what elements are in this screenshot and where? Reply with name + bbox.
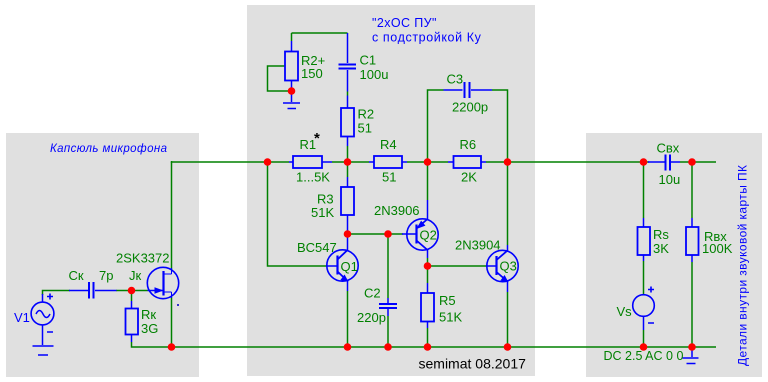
ground symbol at Rvx	[683, 347, 699, 364]
lead: C3 right	[471, 89, 492, 91]
lead: R6 left	[448, 161, 454, 163]
svg-text:3G: 3G	[141, 321, 158, 336]
lead: Ck right	[95, 290, 117, 292]
node: gate/Ck/Rk	[128, 287, 136, 295]
lead: Rk bottom	[131, 335, 133, 343]
resistor R6 2K	[454, 156, 482, 168]
svg-text:2K: 2K	[461, 170, 477, 185]
svg-text:"2хОС ПУ": "2хОС ПУ"	[372, 16, 437, 30]
lead: R5 bottom	[427, 322, 429, 329]
svg-text:Q3: Q3	[500, 259, 517, 274]
lead: Q1 base	[328, 265, 338, 267]
transistor Q3 2N3904	[487, 250, 518, 281]
resistor R2+ 150 (trimmer)	[285, 52, 298, 81]
wire: rail R1 to R4	[332, 161, 369, 163]
lead: C1 top	[347, 33, 349, 63]
lead: R2+ bottom	[291, 81, 293, 103]
svg-text:Rs: Rs	[653, 227, 669, 242]
wire: Rs to Vs	[643, 261, 645, 295]
wire: mid node to Q2 base	[348, 233, 404, 235]
lead: V1 top	[42, 294, 44, 304]
lead: Vs top	[643, 294, 645, 297]
node: R5 ground	[424, 343, 432, 351]
lead: R6 right	[481, 161, 486, 163]
wire: rail Cvx to end	[680, 161, 716, 163]
wire: gate node to JFET gate	[132, 290, 148, 292]
svg-text:2N3906: 2N3906	[374, 203, 420, 218]
panel: Капсюль микрофона	[6, 133, 199, 377]
resistor Rk 3G	[126, 309, 139, 335]
svg-text:2N3904: 2N3904	[455, 238, 501, 253]
wire: Rs top	[643, 162, 645, 218]
capacitor C2 220p plates	[379, 304, 397, 308]
node: rail/C3/Q3c	[504, 158, 512, 166]
svg-text:1...5K: 1...5K	[296, 170, 330, 185]
svg-text:R2: R2	[358, 107, 375, 122]
node: Q2c/Q3b/R5	[424, 262, 432, 270]
resistor R5 51K	[421, 293, 434, 322]
lead: R3 top	[347, 177, 349, 187]
wire: top supply R2+ to C1	[292, 33, 348, 41]
svg-text:Jк: Jк	[129, 268, 142, 283]
wire: Q1 emitter down	[347, 291, 349, 347]
lead: Ck left	[69, 290, 88, 292]
wire: Q3 emitter down	[507, 292, 509, 347]
ground symbol at R2+	[283, 103, 300, 109]
lead: R1 left	[289, 161, 293, 163]
lead: C1 bottom	[347, 70, 349, 92]
wire: rail node to R3	[347, 162, 349, 177]
wire: C3 loop left	[428, 90, 444, 162]
svg-text:*: *	[314, 130, 320, 147]
svg-text:C2: C2	[364, 286, 381, 301]
wire: V1 top to Ck	[43, 291, 71, 296]
wire: node to Q3 base	[428, 265, 488, 267]
wire: C1 to R2 joint	[347, 92, 349, 96]
svg-text:C1: C1	[360, 53, 377, 68]
svg-text:3K: 3K	[653, 241, 669, 256]
lead: Q3 base	[487, 265, 497, 267]
node: source/ground rail	[168, 343, 176, 351]
node: rail/Q1 base	[264, 158, 272, 166]
svg-text:R5: R5	[439, 293, 456, 308]
lead: Q1 collector	[347, 234, 349, 251]
lead: Cvx left	[648, 161, 665, 163]
lead: R2 top	[347, 96, 349, 109]
wire: rail R4 to R6	[407, 161, 448, 163]
wire: R2 bottom to rail node	[347, 146, 349, 162]
resistor R3 51K	[341, 187, 354, 215]
svg-text:51: 51	[358, 121, 372, 136]
node: rail/Rs	[640, 158, 648, 166]
node: Vs ground	[640, 343, 648, 351]
svg-text:100u: 100u	[360, 67, 389, 82]
svg-text:Детали внутри звуковой карты П: Детали внутри звуковой карты ПК	[736, 165, 750, 366]
lead: Q2 emitter	[427, 200, 429, 220]
wire: JFET source down	[171, 297, 173, 347]
lead: V1 bottom	[42, 324, 44, 345]
wire: Ck to gate node	[116, 290, 132, 292]
wire: Rvx bottom	[691, 262, 693, 347]
wire: C2 bottom	[387, 316, 389, 347]
svg-text:2SK3372: 2SK3372	[116, 251, 170, 266]
wire: R5 bottom	[427, 328, 429, 347]
lead: R5 top	[427, 283, 429, 293]
svg-text:51K: 51K	[439, 310, 462, 325]
lead: R4 left	[369, 161, 374, 163]
node: rail/R2/R3	[344, 158, 352, 166]
wire: Rvx top	[691, 162, 693, 218]
capacitor Cvx 10u plates	[666, 155, 671, 171]
lead: R2 bottom	[347, 137, 349, 147]
node: Rvx ground	[688, 343, 696, 351]
lead: Q2 base	[402, 233, 417, 235]
lead: Q3 collector	[507, 245, 509, 251]
wire: bottom ground rail	[132, 342, 717, 347]
lead: R4 right	[402, 161, 407, 163]
transistor Q2 2N3906	[407, 219, 438, 250]
wire: Q1 base from rail	[268, 162, 328, 266]
capacitor C1 100u plates	[339, 65, 357, 69]
svg-text:Q1: Q1	[341, 259, 358, 274]
lead: JFET gate	[148, 290, 163, 292]
svg-text:2200p: 2200p	[452, 100, 488, 115]
resistor Rvx 100K	[686, 227, 699, 255]
svg-text:R6: R6	[460, 137, 477, 152]
svg-text:Ск: Ск	[69, 268, 84, 283]
svg-text:150: 150	[301, 66, 323, 81]
svg-text:BC547: BC547	[297, 240, 337, 255]
svg-text:Свх: Свх	[657, 141, 680, 156]
wire: Q3 collector	[507, 162, 509, 245]
svg-text:semimat 08.2017: semimat 08.2017	[419, 356, 527, 372]
node: C2/Q2 base	[384, 230, 392, 238]
panel: 2хОС ПУ	[247, 5, 535, 376]
lead: Rs bottom	[643, 255, 645, 261]
lead: C3 left	[444, 89, 463, 91]
svg-text:V1: V1	[14, 310, 30, 325]
svg-text:220p: 220p	[357, 310, 386, 325]
svg-text:51K: 51K	[311, 205, 334, 220]
node: rail/C3/Q2e	[424, 158, 432, 166]
svg-text:7р: 7р	[99, 268, 113, 283]
wire: C3 loop right	[492, 90, 508, 162]
node: R3/Q1c	[344, 230, 352, 238]
lead: R2+ top	[291, 41, 293, 52]
svg-text:R4: R4	[380, 137, 397, 152]
wire: Q2 emitter up to rail	[427, 162, 429, 200]
node: Q3e ground	[504, 343, 512, 351]
svg-text:Капсюль микрофона: Капсюль микрофона	[50, 143, 167, 155]
wire: main rail top left (drain to R1)	[172, 161, 290, 162]
lead: Vs bottom	[643, 316, 645, 330]
resistor R4 51	[374, 156, 402, 168]
svg-text:10u: 10u	[659, 172, 681, 187]
svg-text:Q2: Q2	[420, 228, 437, 243]
source V1	[31, 294, 54, 333]
svg-text:Vs: Vs	[617, 304, 633, 319]
resistor Rs 3K	[638, 227, 651, 255]
transistor Q1 BC547	[327, 250, 358, 281]
ground symbol at V1	[33, 346, 54, 355]
node: C2 ground	[384, 343, 392, 351]
svg-text:100K: 100K	[702, 241, 733, 256]
resistor R2 51	[341, 108, 354, 137]
lead: Cvx right	[671, 161, 680, 163]
wire: C2 top	[387, 234, 389, 298]
svg-text:с подстройкой Ку: с подстройкой Ку	[372, 31, 482, 45]
lead: C2 bottom	[387, 309, 389, 316]
transistor Jk 2SK3372 JFET	[147, 267, 178, 298]
svg-text:51: 51	[382, 170, 396, 185]
panel: звуковая карта ПК	[586, 133, 762, 377]
svg-text:C3: C3	[447, 72, 464, 87]
wire: JFET drain vertical	[171, 162, 173, 270]
wire: Vs to ground rail	[643, 330, 645, 347]
lead: C2 top	[387, 298, 389, 303]
lead: Rvx bottom	[691, 255, 693, 262]
lead: Q2 collector	[427, 250, 429, 259]
capacitor C3 2200p plates	[465, 82, 470, 98]
wire: gate node down to Rk	[131, 291, 133, 302]
lead: Q1 emitter	[347, 281, 349, 291]
node: Q1e ground	[344, 343, 352, 351]
svg-text:DC 2.5 AC 0 0: DC 2.5 AC 0 0	[604, 349, 684, 363]
wire: rail R6 to Cvx	[486, 161, 649, 163]
lead: Rvx top	[691, 218, 693, 227]
source Vs	[633, 287, 655, 324]
lead: R3 bottom	[347, 215, 349, 234]
lead: Q3 emitter	[507, 281, 509, 292]
wire: Q2 collector to node	[427, 258, 429, 283]
lead: Rs top	[643, 218, 645, 227]
resistor R1 1...5K	[293, 156, 322, 168]
capacitor Ck 7p plates	[89, 282, 94, 299]
node: R2+ ground	[288, 87, 296, 95]
svg-text:Rк: Rк	[141, 307, 156, 322]
lead: R1 right	[322, 161, 332, 163]
node: rail/Rvx	[688, 158, 696, 166]
wire: R2+ wiper loop	[268, 66, 290, 91]
stray dot	[177, 304, 179, 306]
lead: Rk top	[131, 301, 133, 309]
